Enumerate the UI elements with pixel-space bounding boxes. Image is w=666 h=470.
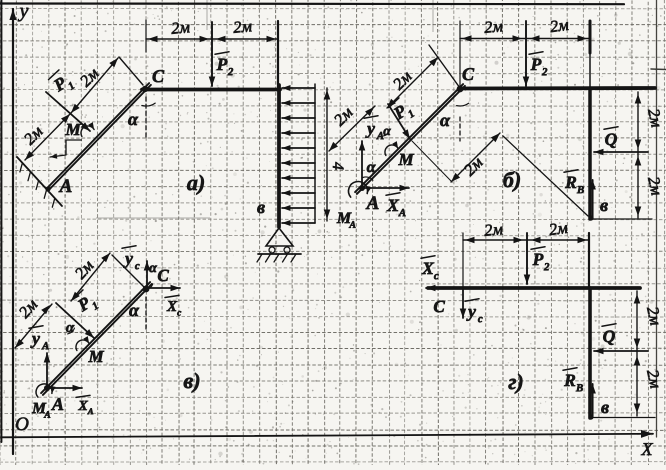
fig a: right dim tick <box>277 21 279 87</box>
fig g: beam <box>428 286 640 290</box>
svg-text:г): г) <box>508 369 524 394</box>
fig a: inclined member AC <box>49 85 151 190</box>
fig g: right dim line <box>636 291 638 416</box>
fig b: top dimension line <box>460 38 589 40</box>
fig b: moment arc at A <box>349 182 368 198</box>
svg-text:Q: Q <box>605 129 618 149</box>
svg-text:A: A <box>43 410 50 421</box>
svg-text:А: А <box>51 394 64 414</box>
fig b: reaction RB arrow <box>592 180 594 218</box>
fig b: dimension 2m upper <box>387 57 438 108</box>
fig a: label P2 <box>215 52 234 78</box>
fig a: support ground hatching <box>257 254 262 262</box>
fig b: dim connector to C <box>429 45 460 88</box>
fig a: fixed support wall at A <box>17 157 62 206</box>
fig b: left dim tick <box>459 21 461 87</box>
fig g: reaction RB arrow <box>592 384 594 416</box>
svg-text:в: в <box>600 195 608 215</box>
fig v: force P1 arrow <box>56 303 94 338</box>
fig b: label MA <box>336 210 357 231</box>
svg-text:M: M <box>87 347 104 366</box>
svg-text:B: B <box>576 184 584 196</box>
fig g: right dim tick <box>588 233 590 288</box>
fig a: angle alpha arc at C <box>142 103 155 106</box>
fig a: label P1 <box>47 67 77 99</box>
node B (fig b) <box>588 215 593 220</box>
fig b: label RB <box>564 170 584 196</box>
fig v: dimension 2m upper <box>71 253 110 301</box>
svg-text:в: в <box>257 197 265 217</box>
svg-text:C: C <box>152 66 165 86</box>
fig a: top dimension line <box>146 38 278 40</box>
node A (fig v) <box>44 385 50 391</box>
fig a: left dim tick <box>145 20 147 52</box>
svg-text:в: в <box>601 397 609 417</box>
svg-text:2: 2 <box>541 66 548 78</box>
fig a: support hatching <box>20 163 23 172</box>
svg-text:y: y <box>30 328 40 348</box>
fig v: moment M hook <box>76 340 89 351</box>
svg-text:2м: 2м <box>483 16 504 37</box>
svg-text:Q: Q <box>603 326 616 346</box>
right margin top mark <box>651 68 666 71</box>
svg-text:X: X <box>640 439 653 459</box>
svg-text:α: α <box>129 300 140 320</box>
fig v: force Yc arrow <box>146 261 148 287</box>
fig a: dashed vertical at C <box>145 97 147 137</box>
left page edge <box>0 0 2 442</box>
fig v: reaction XA arrow <box>50 387 82 389</box>
svg-text:C: C <box>462 64 475 84</box>
fig b: force P2 arrow <box>525 21 527 86</box>
fig b: P1 extension line <box>412 141 452 182</box>
fig v: label YA <box>29 326 49 352</box>
fig b: angle alpha arc at C <box>457 103 469 106</box>
svg-text:2м: 2м <box>549 15 571 36</box>
svg-text:c: c <box>177 309 181 319</box>
fig v: label Yc <box>122 246 140 272</box>
fig v: dimension 2m lower <box>15 304 52 348</box>
fig g: bottom dim tick <box>592 417 655 419</box>
fig g: force Q arrow <box>594 350 648 352</box>
svg-text:c: c <box>434 270 439 282</box>
fig b: dimension 2m lower <box>329 106 375 151</box>
fig b: label YA <box>364 116 384 142</box>
svg-text:R: R <box>564 172 577 192</box>
fig a: force P2 arrow <box>211 22 213 86</box>
fig a: beam C to wall <box>142 88 280 92</box>
fig v: dim connector to C <box>112 255 145 288</box>
svg-text:A: A <box>41 340 49 352</box>
fig b: bottom dim tick <box>591 218 652 220</box>
fig b: beam C to right <box>459 86 655 90</box>
svg-text:А: А <box>366 193 380 214</box>
fig b: label Q <box>604 127 618 149</box>
svg-text:α: α <box>367 159 377 176</box>
svg-text:A: A <box>348 220 356 231</box>
svg-text:2м: 2м <box>548 218 570 239</box>
svg-text:в): в) <box>183 368 200 393</box>
top border line <box>0 2 624 5</box>
svg-text:M: M <box>397 150 414 169</box>
svg-text:2м: 2м <box>170 17 191 38</box>
fig b: label XA <box>386 193 406 219</box>
fig b: reaction XA arrow <box>363 187 409 189</box>
fig a: load dimension line 4m <box>326 88 328 221</box>
fig a: moment M hook <box>81 126 94 137</box>
node B (fig g) <box>588 414 593 419</box>
svg-text:y: y <box>18 0 29 22</box>
svg-text:A: A <box>59 176 73 197</box>
fig a: moment M jog arrow <box>66 140 82 155</box>
fig b: right dim line <box>637 92 639 218</box>
svg-text:2: 2 <box>543 261 550 273</box>
fig a: force P1 arrow <box>46 92 90 131</box>
fig v: label P1 <box>71 287 101 319</box>
svg-text:y: y <box>466 301 476 321</box>
svg-text:б): б) <box>503 167 521 192</box>
fig a: vertical member CB <box>277 85 281 227</box>
svg-text:R: R <box>563 370 576 390</box>
fig b: label P1 <box>387 96 417 128</box>
node C (fig v) <box>143 286 150 293</box>
fig g: label Q <box>602 324 616 346</box>
node C (fig b) <box>457 86 464 93</box>
svg-text:A: A <box>398 207 406 219</box>
svg-text:α: α <box>440 110 451 130</box>
fig v: moment arc at A <box>36 384 52 397</box>
node A (fig a) <box>45 186 50 191</box>
svg-text:4: 4 <box>329 162 346 170</box>
fig g: label RB <box>563 368 583 394</box>
fig b: dashed vertical at C <box>459 117 461 141</box>
fig b: right dim tick <box>589 21 592 53</box>
fig v: label XA <box>76 395 94 416</box>
fig b: moment M hook <box>385 145 398 156</box>
svg-text:y: y <box>123 248 133 268</box>
svg-text:а): а) <box>187 170 205 195</box>
svg-text:P: P <box>216 54 228 74</box>
fig g: left dim tick <box>462 233 464 287</box>
fig b: label P2 <box>529 52 548 78</box>
fig b: reaction YA arrow <box>361 141 363 185</box>
svg-text:P: P <box>532 249 544 269</box>
fig g: top dimension line <box>463 239 589 241</box>
fig v: dashed vertical at C <box>145 297 147 331</box>
svg-text:2м: 2м <box>483 219 504 240</box>
fig g: label Xc <box>421 256 439 282</box>
fig b: extension line to B <box>503 136 588 216</box>
fig v: reaction YA arrow <box>46 353 48 386</box>
fig g: force P2 arrow <box>526 233 528 284</box>
x-axis <box>1 434 653 438</box>
svg-text:C: C <box>433 297 445 316</box>
fig a: dimension 2m lower (A to mid) <box>25 114 70 160</box>
node C (fig a) <box>142 86 148 92</box>
y-axis <box>12 9 14 454</box>
fig v: label Xc <box>165 295 181 318</box>
svg-text:B: B <box>575 382 583 394</box>
svg-text:c: c <box>478 313 483 325</box>
fig b: force Q arrow <box>594 151 648 153</box>
fig g: force Xc arrow <box>426 287 468 289</box>
right margin line <box>656 0 658 437</box>
fig g: force Yc arrow <box>462 290 464 318</box>
svg-text:2: 2 <box>227 66 234 78</box>
svg-text:X: X <box>77 399 88 414</box>
fig a: dimension 2m upper (mid to C) <box>71 58 118 113</box>
fig a: roller support at B <box>266 228 293 246</box>
svg-text:c: c <box>135 260 140 272</box>
fig g: label P2 <box>531 247 550 273</box>
fig b: dimension 2m to B <box>451 133 500 182</box>
node A (fig b) <box>359 185 365 191</box>
svg-text:P: P <box>530 54 542 74</box>
svg-text:α: α <box>128 109 139 129</box>
fig v: label MA <box>31 400 51 421</box>
fig a: dim connector to C <box>119 57 143 85</box>
svg-text:y: y <box>365 118 375 138</box>
fig v: inclined member AC <box>43 284 152 395</box>
fig b: force P1 arrow <box>388 104 410 139</box>
svg-text:A: A <box>87 406 94 416</box>
svg-text:O: O <box>15 414 29 435</box>
fig b: vertical member CB <box>588 88 592 219</box>
svg-text:2м: 2м <box>232 16 253 37</box>
fig b: inclined member AC <box>357 86 465 194</box>
svg-text:C: C <box>157 266 169 285</box>
svg-text:M: M <box>64 120 81 139</box>
fig a: distributed load edge line <box>314 84 316 223</box>
fig g: vertical member CB <box>588 288 592 418</box>
fig a: distributed load arrows <box>282 87 315 89</box>
fig v: force Xc arrow <box>148 287 180 289</box>
fig g: label Yc <box>465 299 483 325</box>
svg-text:α: α <box>149 261 157 276</box>
